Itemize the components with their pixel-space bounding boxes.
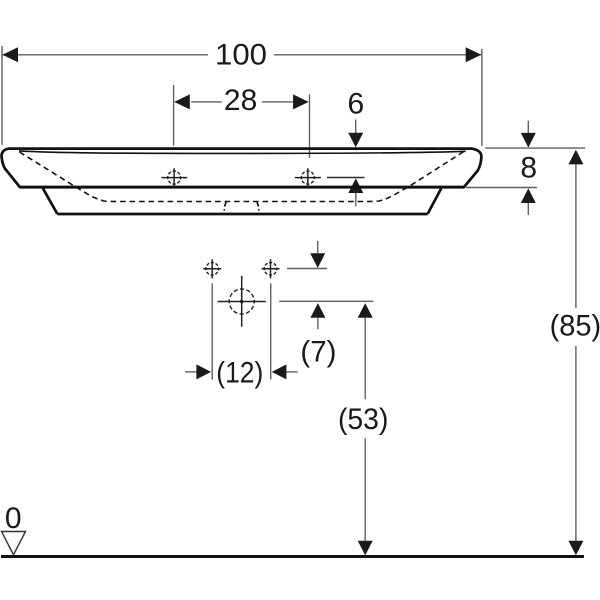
dimension (85): dimension line lower segment: [575, 346, 577, 541]
washbasin top rim outer line: [9, 147, 472, 150]
dimension (12): right arrow pointing left: [272, 364, 298, 379]
dimension 8: lower arrowhead pointing up: [521, 188, 536, 203]
dimension (7): arrowhead pointing up to drain line: [310, 303, 325, 318]
left wall fixing hole crosshair: [203, 259, 221, 278]
right tap hole crosshair: [295, 168, 321, 187]
dimension 28: dimension line: [191, 101, 293, 103]
svg-text:(12): (12): [216, 357, 263, 390]
svg-text:28: 28: [224, 84, 257, 117]
dimension (12): left arrow pointing right: [185, 364, 211, 379]
svg-text:0: 0: [5, 502, 22, 535]
dimension (53): dimension line lower segment: [364, 438, 366, 541]
dimension (7): value label: [300, 335, 336, 368]
dimension (53): value label: [338, 403, 389, 436]
svg-text:(85): (85): [550, 310, 600, 343]
dimension 100: dimension line: [2, 54, 481, 56]
datum 0 label: [5, 502, 22, 535]
floor line: [1, 555, 584, 558]
washbasin rim inner edge line: [19, 151, 466, 154]
dimension 6: upper arrowhead pointing down to rim: [348, 133, 363, 148]
washbasin apron bottom line: [20, 186, 464, 189]
dimension (12): left extension line: [211, 283, 213, 379]
dimension 8: lower leader tail: [527, 203, 529, 215]
pedestal right slant: [428, 188, 442, 214]
dimension 100: right arrowhead: [466, 47, 482, 62]
dimension (12): value label: [216, 357, 263, 390]
dimension 28: right extension line: [309, 94, 311, 158]
dimension (12): right extension line: [270, 283, 272, 379]
drain hole crosshair: [218, 276, 266, 327]
svg-text:(53): (53): [338, 403, 389, 436]
leader arrow down to fixing holes line: [310, 241, 325, 268]
dimension (53): upper arrowhead pointing up to drain line: [358, 303, 373, 318]
dimension 28: value label: [224, 84, 257, 117]
dimension (85): top arrowhead pointing up to rim level: [568, 150, 583, 165]
svg-text:6: 6: [347, 88, 364, 121]
dimension (53): dimension line upper segment: [364, 318, 366, 400]
dimension (85): bottom arrowhead pointing down to floor: [568, 541, 583, 556]
dimension 8: top extension line at rim level: [485, 147, 585, 149]
dimension (7): leader tail: [317, 318, 319, 330]
dimension 100: right extension line: [481, 49, 483, 146]
dimension 6: lower arrowhead pointing up to tap-hole plane: [348, 178, 363, 193]
dimension 6: value label: [347, 88, 364, 121]
dimension 100: left extension line: [1, 46, 3, 145]
washbasin right nose outline: [464, 149, 482, 188]
wall fixing holes reference line: [287, 268, 327, 270]
washbasin inner bowl hidden outline (dashed): [20, 151, 465, 202]
washbasin left nose outline: [2, 149, 20, 188]
svg-text:100: 100: [215, 38, 267, 71]
svg-text:8: 8: [520, 151, 537, 184]
drain height reference line: [279, 300, 373, 302]
dimension 8: bottom extension line at apron level: [466, 187, 537, 189]
drain outlet hidden lines (dashed hooks): [224, 202, 259, 210]
dimension 8: upper arrowhead pointing down: [521, 133, 536, 148]
dimension 28: left arrowhead: [174, 94, 190, 109]
datum triangle symbol: [2, 532, 26, 555]
svg-text:(7): (7): [300, 335, 336, 368]
pedestal left slant: [43, 188, 57, 214]
dimension 6: lower leader tail: [355, 193, 357, 206]
dimension (85): dimension line upper segment: [575, 164, 577, 308]
dimension 6: upper leader line: [355, 120, 357, 147]
pedestal bottom line: [57, 213, 427, 216]
dimension 8: upper leader line: [527, 121, 529, 147]
dimension 100: value label: [215, 38, 267, 71]
dimension 8: value label: [520, 151, 537, 184]
dimension (53): bottom arrowhead pointing down to floor: [358, 541, 373, 556]
dimension 28: left extension line: [173, 85, 175, 146]
dimension (85): value label: [550, 310, 600, 343]
dimension 28: right arrowhead: [293, 94, 309, 109]
tap-hole plane reference line: [327, 177, 365, 179]
right wall fixing hole crosshair: [262, 259, 280, 278]
left tap hole crosshair: [161, 168, 187, 187]
dimension 100: left arrowhead: [2, 47, 18, 62]
